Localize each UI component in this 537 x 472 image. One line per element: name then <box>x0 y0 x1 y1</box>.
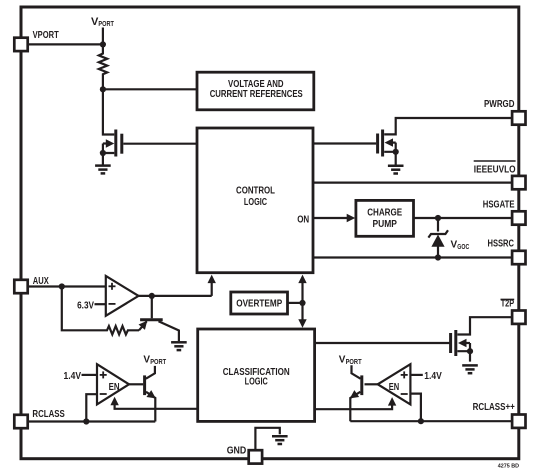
svg-text:PORT: PORT <box>150 359 167 366</box>
svg-text:RCLASS++: RCLASS++ <box>473 402 515 413</box>
svg-text:RCLASS: RCLASS <box>32 409 65 420</box>
svg-text:CURRENT REFERENCES: CURRENT REFERENCES <box>210 89 303 100</box>
svg-text:CHARGE: CHARGE <box>367 207 402 218</box>
svg-text:HSSRC: HSSRC <box>488 239 515 250</box>
svg-text:AUX: AUX <box>33 276 49 287</box>
svg-text:CONTROL: CONTROL <box>236 186 275 197</box>
svg-text:PWRGD: PWRGD <box>484 99 515 110</box>
svg-text:VPORT: VPORT <box>33 30 59 41</box>
svg-text:PORT: PORT <box>346 359 363 366</box>
svg-text:LOGIC: LOGIC <box>244 197 267 208</box>
svg-text:4275 BD: 4275 BD <box>498 464 519 470</box>
svg-text:6.3V: 6.3V <box>77 300 94 311</box>
svg-text:OVERTEMP: OVERTEMP <box>236 299 282 310</box>
svg-text:EN: EN <box>389 382 400 393</box>
svg-text:LOGIC: LOGIC <box>245 377 268 388</box>
svg-text:HSGATE: HSGATE <box>483 200 515 211</box>
svg-text:1.4V: 1.4V <box>424 371 442 382</box>
svg-text:PUMP: PUMP <box>372 219 397 230</box>
svg-text:GND: GND <box>227 445 247 456</box>
svg-text:PORT: PORT <box>98 19 114 28</box>
svg-text:GOC: GOC <box>457 242 469 251</box>
svg-text:1.4V: 1.4V <box>64 371 82 382</box>
svg-text:IEEEUVLO: IEEEUVLO <box>474 164 516 175</box>
svg-text:EN: EN <box>109 382 120 393</box>
svg-text:ON: ON <box>297 215 309 226</box>
